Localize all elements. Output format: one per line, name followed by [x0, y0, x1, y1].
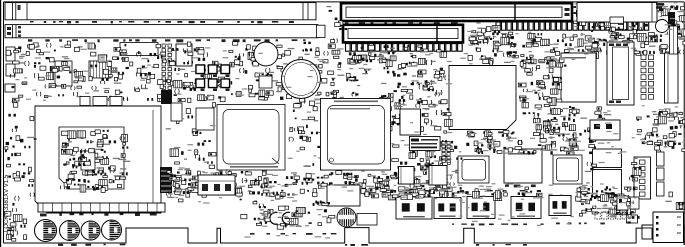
board outline bottom edge with edge-connector notches [4, 225, 685, 245]
board outline right edge [683, 2, 685, 245]
parts below slot B left [347, 55, 396, 67]
header J6 below CPU socket [38, 203, 165, 212]
inductor L2 box [357, 214, 377, 226]
left edge connector JP1 [6, 47, 15, 61]
parts above power connector [665, 192, 684, 210]
small module boxes right of VR row [617, 196, 628, 210]
connector J3 end details [12, 25, 14, 38]
component field left of north bridge [346, 45, 453, 135]
white module box right-middle [590, 120, 620, 140]
cap designator text below board edge [58, 244, 125, 246]
IC U17 SRAM square [504, 149, 542, 183]
connector J7 redraw [198, 175, 235, 195]
manufacturer label EVERCOM redraw [410, 137, 441, 151]
J3 left-end pin marks [18, 26, 21, 29]
IC U20 QFP bottom-right [553, 155, 582, 184]
transformer T1 box redraw [399, 167, 415, 185]
label block top-right corner [656, 3, 664, 5]
modules near bottom center-right [609, 194, 640, 224]
CPU socket inner cavity [59, 127, 124, 189]
board outline left edge [3, 2, 5, 243]
transformer T2 box [429, 166, 447, 186]
feet [40, 214, 157, 217]
IC U10 wide flat pack upper-left [120, 43, 158, 56]
dense component field top-right [573, 3, 685, 58]
parts between QFP chips [289, 101, 321, 167]
scattered parts above bottom edge left-middle [240, 199, 335, 230]
parts right of band1 end [326, 6, 347, 43]
DC-DC module U19 tall [607, 42, 634, 105]
left edge jumper block [5, 84, 15, 92]
parts left of U18 [546, 57, 566, 106]
dark component top-right [668, 12, 675, 26]
connector J1 internal dividers [12, 3, 14, 20]
comb row center tab [610, 17, 624, 30]
IC U18 south-east chip [561, 53, 596, 102]
white box lower middle [327, 185, 360, 206]
pin header comb row under PCI slot [346, 44, 463, 52]
right edge small connectors [657, 152, 665, 166]
notch designator text [345, 244, 368, 246]
small component field upper-left [16, 41, 345, 105]
parts left of CPU socket [18, 117, 36, 197]
voltage regulator module VR1 [396, 197, 432, 219]
capacitor C4 [102, 220, 122, 240]
parts left edge upper [6, 50, 22, 88]
connector J1 top long header band [5, 3, 316, 20]
transformer T2 box redraw [429, 166, 447, 186]
pad square grid redraw (clean) [196, 65, 230, 91]
crystal Y1 round can [254, 42, 278, 66]
capacitor C30 hatched round [337, 208, 356, 227]
connector J7 white box below U13 [198, 175, 235, 195]
transformer T1 box [399, 167, 415, 185]
IC U15 north bridge BGA [449, 66, 516, 130]
power module Q3 [549, 196, 571, 216]
board outline top edge [4, 1, 685, 3]
bottom-left corner parts [7, 219, 27, 242]
component field right-middle [546, 106, 612, 156]
connector J5 white box [176, 44, 192, 66]
parts right of CPU socket [166, 102, 219, 201]
component field far-right-middle [637, 109, 685, 155]
socket cavity tiny parts [60, 130, 130, 193]
text smudge bottom-right [556, 223, 605, 225]
parts around transformers [390, 140, 462, 194]
capacitor C3 [81, 221, 100, 240]
LED box row [627, 215, 638, 223]
white rects right of CPU socket [171, 103, 182, 121]
parts band above module row [380, 183, 542, 201]
edge connector J11 tall right [665, 53, 679, 103]
text smudge under module row mid [382, 190, 541, 192]
text smudge under modules [452, 224, 544, 226]
power mosfet module Q1 [467, 197, 495, 219]
IC U12 fine-pitch chip with hatch [89, 61, 111, 78]
IC U16 QFP with double border [458, 156, 489, 183]
text smudge under U15 [468, 132, 515, 134]
component box below crystal [259, 76, 272, 88]
capacitor C1 [35, 220, 57, 242]
IC U13 QFP flash/super-IO left [217, 105, 285, 171]
parts below slots right [468, 32, 574, 66]
ISA bus slot J2 (long black slot) [341, 3, 572, 21]
vertical header J12 [634, 157, 651, 199]
text smudges above bottom edge middle [250, 233, 336, 235]
ticks [345, 22, 458, 24]
parts right of north bridge [518, 55, 550, 133]
battery BT1 coin cell [282, 60, 321, 99]
manufacturer label table EVERCOM [410, 137, 441, 151]
inductor L4 box [593, 170, 622, 197]
finger designator text [476, 244, 527, 246]
small connector in notch [642, 228, 652, 239]
memory socket J14 big white box top-right [577, 3, 657, 23]
tick marks left of J14 [574, 6, 577, 8]
feet [28, 39, 306, 42]
left edge small parts [4, 98, 22, 222]
header block J10 right [641, 55, 654, 99]
white box right of U14 [400, 109, 421, 135]
tick row [30, 21, 294, 23]
DIP pin column JP8 [442, 142, 450, 163]
DIP pin column redraw [442, 142, 450, 163]
svg-text:LOCKY-3381XV V1.5: LOCKY-3381XV V1.5 [4, 174, 10, 232]
pad square grid (mounting pads) [196, 65, 230, 91]
parts around L3 L4 [627, 158, 641, 206]
power module Q3 clean [549, 196, 571, 216]
decoupling capacitor column left of U15 [426, 60, 442, 125]
parts bottom-right field [576, 186, 636, 216]
white rect top-right a [582, 9, 594, 18]
parts between slots gap [469, 22, 501, 44]
socket right inner line [152, 110, 154, 208]
power mosfet module Q2 [511, 197, 541, 219]
component field below QFPs [168, 170, 464, 199]
pin header comb row right of slots [496, 22, 649, 30]
inductor L3 box [593, 149, 622, 168]
tall narrow box top-right edge [670, 26, 678, 54]
IC U14 QFP chipset middle [321, 99, 391, 171]
pads [505, 185, 536, 188]
drawing frame left edge line [0, 0, 2, 247]
dark pad right of socket upper [161, 90, 172, 104]
relay-style box with dark pads [399, 193, 425, 197]
PCI bus slot J4 (short black slot) [343, 25, 463, 43]
dashed footprint row [595, 213, 627, 220]
capacitor C40 round [656, 20, 669, 33]
dark striped pad right of socket lower [160, 167, 172, 193]
power connector J13 bottom-right corner [653, 212, 684, 243]
IC U11 small module [55, 61, 72, 86]
CPU socket U36 outer body (PGA ZIF socket) [35, 106, 161, 213]
voltage regulator module VR2 [434, 198, 461, 219]
CE mark [270, 212, 278, 224]
left edge connector JP2 [6, 64, 15, 76]
parts between U16 and U17 [466, 131, 546, 155]
connector J3 second long header band [5, 25, 318, 38]
white rect top-right b [610, 11, 623, 19]
cavity center pad [81, 151, 95, 170]
capacitor C2 [60, 221, 80, 241]
socket top edge bumps [80, 97, 90, 106]
IC U14 QFP chipset redraw (clean) [321, 99, 391, 171]
J14 bottom center tab [610, 17, 624, 23]
DIP resistor network column RN1 [162, 44, 171, 99]
parts right of U20 [585, 152, 598, 198]
